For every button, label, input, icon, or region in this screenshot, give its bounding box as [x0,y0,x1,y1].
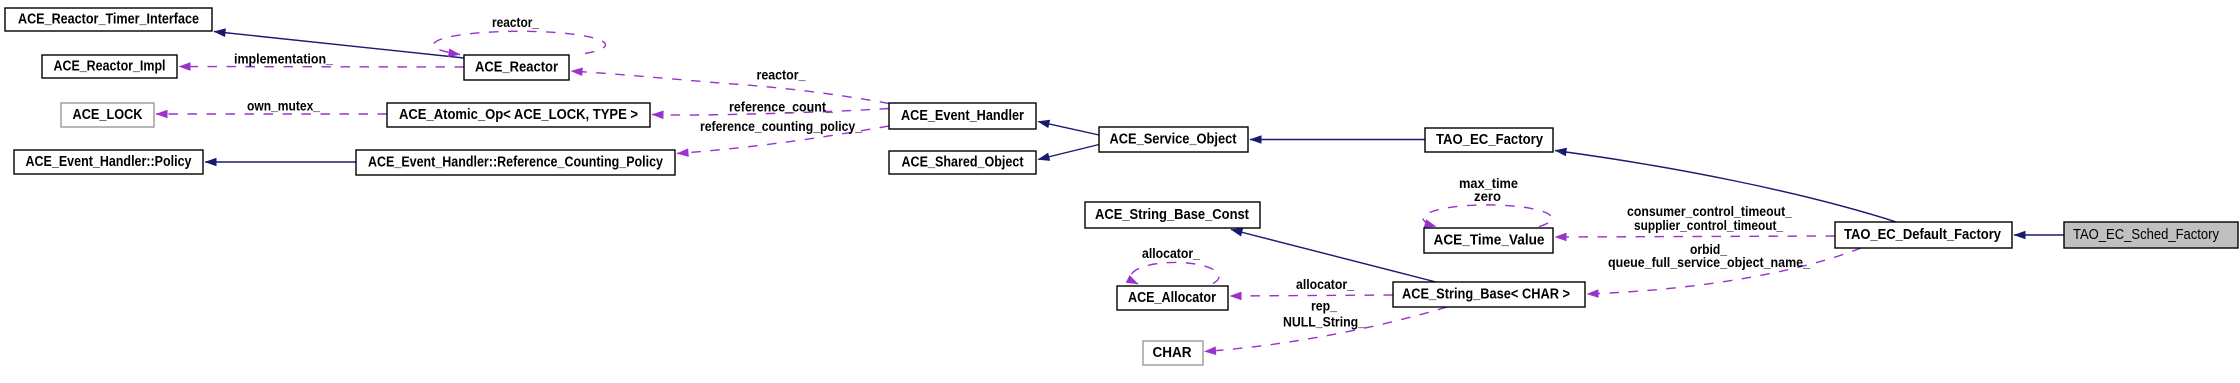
svg-text:reactor_: reactor_ [492,15,539,30]
svg-text:ACE_String_Base< CHAR >: ACE_String_Base< CHAR > [1402,287,1570,303]
svg-text:rep_: rep_ [1311,299,1337,314]
svg-text:TAO_EC_Default_Factory: TAO_EC_Default_Factory [1844,227,2001,243]
svg-text:supplier_control_timeout_: supplier_control_timeout_ [1634,218,1783,233]
svg-text:zero: zero [1474,189,1501,204]
svg-text:ACE_Event_Handler::Reference_C: ACE_Event_Handler::Reference_Counting_Po… [368,155,663,171]
svg-text:ACE_Shared_Object: ACE_Shared_Object [902,155,1024,171]
svg-text:CHAR: CHAR [1153,345,1192,361]
svg-text:TAO_EC_Sched_Factory: TAO_EC_Sched_Factory [2073,227,2220,243]
svg-text:consumer_control_timeout_: consumer_control_timeout_ [1627,204,1792,219]
svg-text:queue_full_service_object_name: queue_full_service_object_name_ [1608,255,1810,270]
svg-text:ACE_Service_Object: ACE_Service_Object [1110,132,1237,148]
svg-text:allocator_: allocator_ [1142,246,1200,261]
svg-text:ACE_Reactor_Timer_Interface: ACE_Reactor_Timer_Interface [18,12,199,28]
svg-text:ACE_Event_Handler::Policy: ACE_Event_Handler::Policy [26,154,192,170]
svg-text:ACE_Atomic_Op< ACE_LOCK, TYPE: ACE_Atomic_Op< ACE_LOCK, TYPE > [399,107,638,123]
svg-text:ACE_LOCK: ACE_LOCK [73,107,143,123]
svg-text:ACE_String_Base_Const: ACE_String_Base_Const [1095,207,1249,223]
svg-text:TAO_EC_Factory: TAO_EC_Factory [1436,132,1543,148]
svg-text:ACE_Event_Handler: ACE_Event_Handler [901,108,1024,124]
svg-text:ACE_Reactor_Impl: ACE_Reactor_Impl [54,59,166,75]
svg-text:allocator_: allocator_ [1296,277,1354,292]
svg-text:reactor_: reactor_ [757,68,806,83]
svg-text:NULL_String_: NULL_String_ [1283,315,1365,330]
svg-text:reference_count_: reference_count_ [729,100,833,115]
svg-text:ACE_Time_Value: ACE_Time_Value [1434,233,1545,249]
svg-text:ACE_Allocator: ACE_Allocator [1128,290,1216,306]
svg-text:own_mutex_: own_mutex_ [247,99,320,114]
svg-text:ACE_Reactor: ACE_Reactor [475,60,558,76]
svg-text:implementation_: implementation_ [234,52,333,67]
svg-text:reference_counting_policy_: reference_counting_policy_ [700,119,862,134]
